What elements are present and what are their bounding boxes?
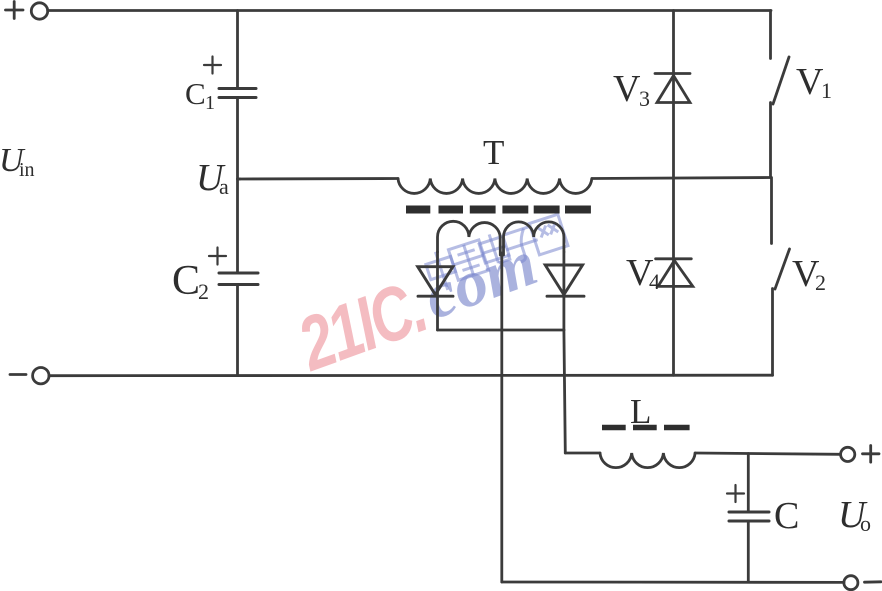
svg-text:1: 1 [821, 78, 832, 103]
terminal output - [844, 576, 858, 590]
label + (output positive) [863, 446, 880, 463]
transformer T secondary windings [438, 221, 501, 252]
watermark chinese characters [423, 212, 569, 294]
label V4 [626, 252, 660, 294]
label Uin [0, 142, 35, 181]
wire capacitor C lower [747, 521, 750, 582]
label C2 [172, 258, 209, 304]
svg-text:a: a [219, 174, 229, 199]
svg-text:V: V [796, 61, 824, 103]
terminal input - [33, 368, 49, 384]
wire inductor to output + [695, 453, 841, 454]
wire left rail upper (to C1) [236, 11, 239, 89]
wire rectifier output down [564, 330, 565, 453]
wire left rail middle (C1 to C2) [236, 98, 239, 273]
label + (C output polarity) [727, 485, 744, 502]
capacitor C output [729, 512, 769, 521]
svg-text:in: in [19, 159, 35, 181]
svg-text:4: 4 [649, 269, 660, 294]
inductor core [602, 425, 690, 431]
watermark 21IC [287, 265, 436, 388]
label + (C2 polarity) [209, 248, 226, 265]
transformer core [406, 206, 591, 214]
rectifier diode left [418, 267, 453, 297]
label + (input positive) [6, 2, 24, 19]
transformer T primary winding [398, 179, 592, 194]
wire center tap [500, 247, 503, 582]
svg-text:o: o [860, 511, 871, 536]
terminal output + [841, 447, 855, 461]
label V2 [792, 253, 826, 295]
svg-text:3: 3 [639, 86, 650, 111]
wire bottom rail [49, 374, 773, 377]
switch V1 [771, 11, 790, 178]
wire V3 V4 leg [672, 11, 675, 376]
label Ua [196, 157, 229, 199]
svg-text:C: C [774, 495, 799, 537]
inductor L winding [600, 453, 695, 468]
watermark com script [414, 226, 546, 333]
svg-text:2: 2 [815, 270, 826, 295]
label + (C1 polarity) [204, 57, 221, 74]
wire secondary bottom [438, 329, 564, 332]
svg-text:C: C [185, 76, 206, 111]
wire left rail lower (C2 to bottom rail) [236, 285, 239, 376]
node Ua junction [238, 178, 241, 181]
svg-text:L: L [630, 392, 651, 431]
wire secondary right leg [563, 252, 566, 330]
wire primary to switch leg [592, 178, 771, 179]
svg-text:C: C [172, 258, 200, 304]
label - (output negative) [865, 580, 882, 583]
label Uo [838, 494, 871, 536]
wire capacitor C upper [747, 454, 750, 512]
capacitor C1 [219, 89, 256, 98]
wire bottom output [502, 581, 844, 584]
label - (input negative) [10, 373, 26, 376]
svg-text:2: 2 [198, 279, 209, 304]
terminal input + [31, 3, 47, 19]
wire Ua to primary [238, 177, 399, 180]
switch V2 [772, 178, 790, 376]
label C1 [185, 76, 215, 114]
svg-text:V: V [613, 68, 641, 110]
svg-text:T: T [483, 133, 504, 172]
rectifier diode right [545, 265, 584, 296]
diode V4 [656, 259, 693, 287]
label V3 [613, 68, 650, 111]
wire rectifier output to inductor [565, 452, 600, 455]
diode V3 [655, 74, 690, 103]
wire secondary left leg [436, 252, 439, 330]
wire top rail [48, 9, 771, 12]
label V1 [796, 61, 832, 103]
capacitor C2 [219, 273, 258, 285]
svg-text:1: 1 [205, 92, 215, 114]
